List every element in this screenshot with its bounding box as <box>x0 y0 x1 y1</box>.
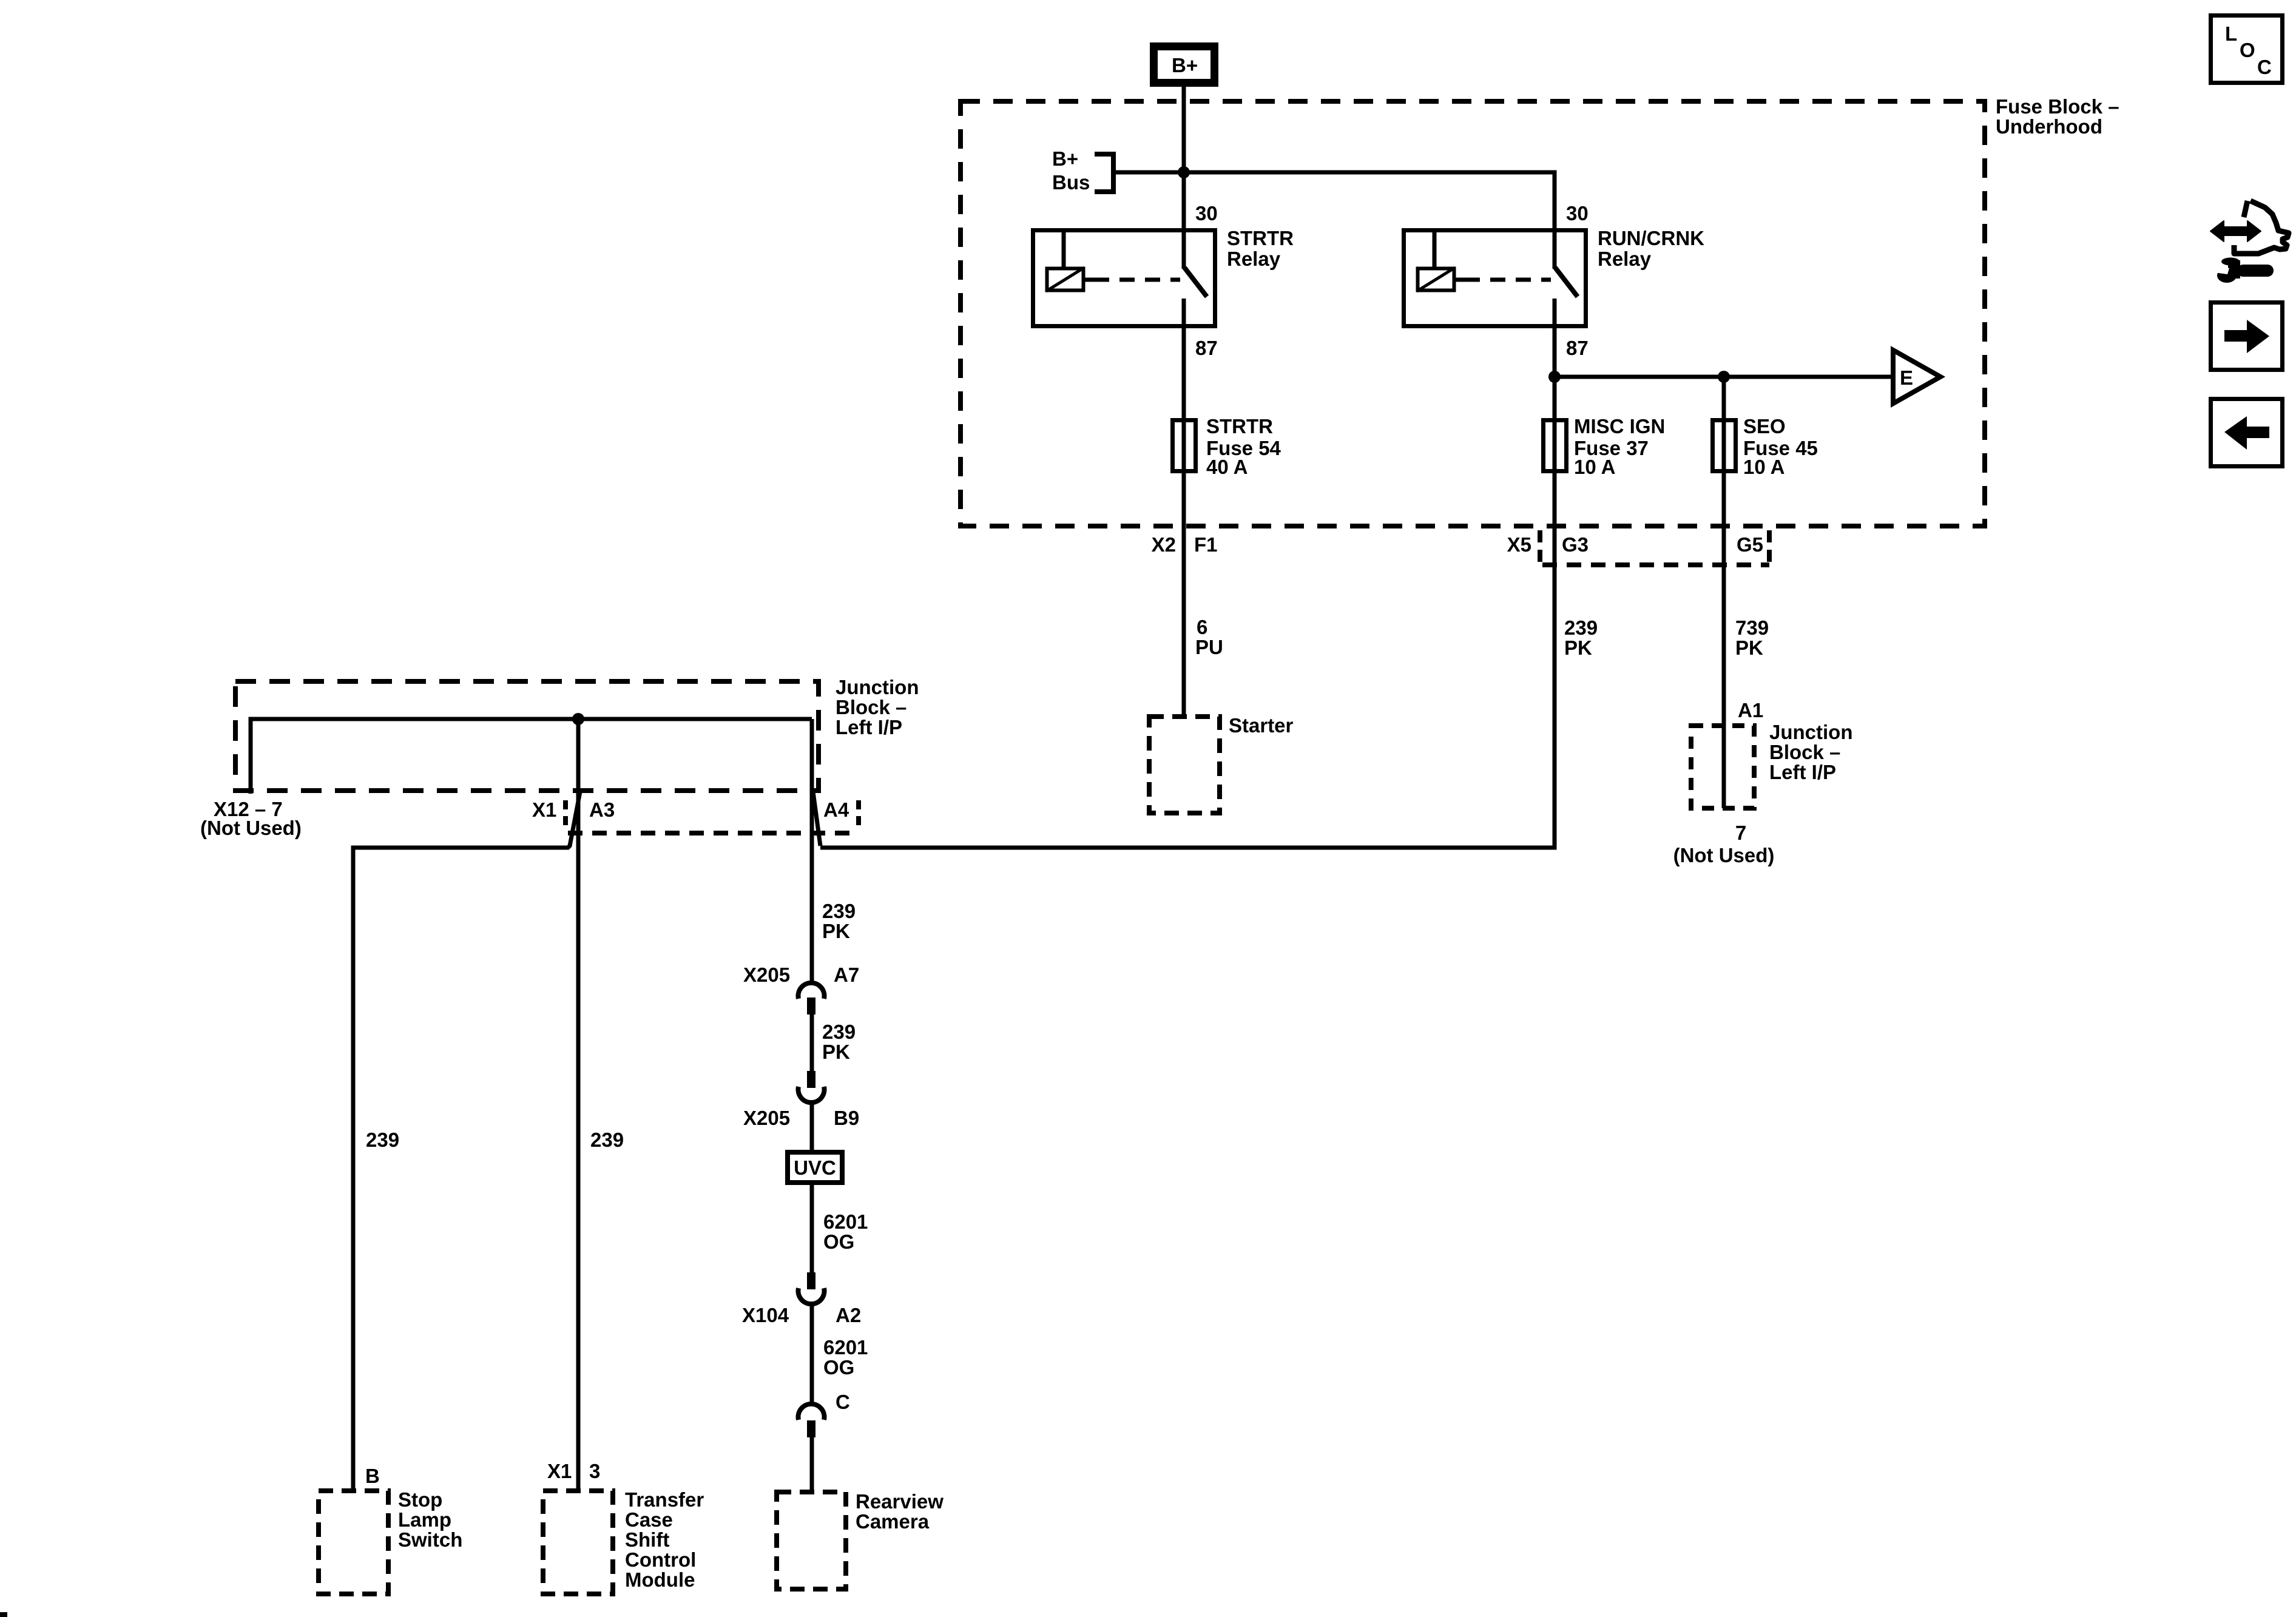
svg-text:C: C <box>836 1391 850 1413</box>
svg-text:MISC IGN: MISC IGN <box>1574 415 1665 437</box>
svg-text:239: 239 <box>1564 616 1598 639</box>
relay STRTR pin 87 wire down to fuse <box>1182 299 1186 717</box>
connector C male pin <box>807 1420 815 1437</box>
svg-text:40 A: 40 A <box>1206 456 1248 478</box>
svg-text:30: 30 <box>1195 202 1218 224</box>
connector labels G5 739 PK A1 <box>1735 533 1769 721</box>
svg-text:Transfer: Transfer <box>625 1488 704 1511</box>
connector X205 B9 labels <box>743 1107 859 1129</box>
svg-text:Starter: Starter <box>1229 714 1294 737</box>
svg-text:Junction: Junction <box>1769 721 1853 743</box>
labels X1 3 transfer case pins <box>547 1460 600 1482</box>
label rearview camera <box>856 1490 944 1533</box>
svg-text:G5: G5 <box>1737 533 1763 556</box>
svg-text:UVC: UVC <box>794 1156 836 1179</box>
service icon wrench <box>2214 258 2267 283</box>
svg-text:X205: X205 <box>743 1107 790 1129</box>
relay RUN/CRNK actuation dashed line <box>1465 278 1551 282</box>
svg-text:Block –: Block – <box>1769 741 1840 763</box>
svg-text:A3: A3 <box>589 798 615 821</box>
wire UVC down to X104 <box>810 1185 814 1272</box>
label fuse block underhood <box>1996 95 2119 138</box>
svg-text:X205: X205 <box>743 964 790 986</box>
wire B+ bus horizontal to relay 2 pin 30 <box>1116 172 1555 269</box>
connector X104 A2 female arc <box>799 1288 825 1304</box>
wire SEO fuse down to junction block A1 <box>1722 377 1726 808</box>
svg-text:X1: X1 <box>532 798 556 821</box>
inline splice UVC box <box>788 1152 842 1183</box>
svg-text:Camera: Camera <box>856 1510 930 1533</box>
svg-text:STRTR: STRTR <box>1206 415 1273 437</box>
connector X205 B9 female arc <box>799 1087 825 1102</box>
junction block left IP dashed border <box>235 681 819 791</box>
relay RUN/CRNK labels <box>1566 202 1704 359</box>
relay STRTR box <box>1033 231 1215 326</box>
relay RUN/CRNK box <box>1404 231 1586 326</box>
connector X205 A7 female arc <box>799 983 825 999</box>
svg-text:F1: F1 <box>1194 533 1218 556</box>
svg-text:Shift: Shift <box>625 1528 669 1551</box>
svg-text:10 A: 10 A <box>1743 456 1784 478</box>
svg-text:239: 239 <box>590 1129 624 1151</box>
wire B9 to UVC <box>810 1102 814 1150</box>
label junction block right <box>1673 721 1853 866</box>
connector strip below junction block <box>566 800 859 833</box>
svg-text:6: 6 <box>1197 616 1207 638</box>
service icon hand outline <box>2234 201 2289 254</box>
junction dot at MISC IGN branch <box>1548 371 1561 383</box>
svg-text:Switch: Switch <box>398 1528 462 1551</box>
connector X205 A7 male pin <box>807 998 815 1014</box>
svg-text:Stop: Stop <box>398 1488 442 1511</box>
svg-text:(Not Used): (Not Used) <box>200 817 302 839</box>
svg-text:A1: A1 <box>1738 699 1763 721</box>
wire A3 down to transfer case module <box>576 719 581 1491</box>
svg-text:L: L <box>2225 22 2237 45</box>
svg-text:Left I/P: Left I/P <box>836 716 902 738</box>
LOC legend box <box>2211 16 2283 83</box>
svg-text:87: 87 <box>1566 337 1589 359</box>
label X12-7 not used <box>200 798 302 839</box>
relay STRTR coil feed wire <box>1062 230 1066 268</box>
svg-text:STRTR: STRTR <box>1227 227 1294 249</box>
label transfer case shift control module <box>625 1488 704 1591</box>
svg-text:A4: A4 <box>823 798 849 821</box>
label junction block left <box>836 676 919 738</box>
relay STRTR coil diagonal <box>1046 268 1084 291</box>
off-page arrow E <box>1893 350 1940 403</box>
svg-text:B+: B+ <box>1172 54 1198 76</box>
relay STRTR actuation dashed line <box>1094 278 1180 282</box>
connector X205 B9 male pin <box>807 1071 815 1088</box>
svg-text:Junction: Junction <box>836 676 919 698</box>
relay STRTR labels <box>1195 202 1294 359</box>
svg-text:Fuse Block –: Fuse Block – <box>1996 95 2119 118</box>
fuse SEO 45 <box>1713 420 1736 471</box>
svg-text:PK: PK <box>1564 636 1592 659</box>
svg-text:X5: X5 <box>1507 533 1531 556</box>
svg-text:Block –: Block – <box>836 696 907 718</box>
wire relay 2 87 horizontal to E arrow <box>1555 375 1893 379</box>
svg-text:Module: Module <box>625 1568 695 1591</box>
relay RUN/CRNK coil feed wire <box>1433 230 1437 268</box>
svg-text:O: O <box>2240 39 2255 61</box>
svg-text:A2: A2 <box>836 1304 861 1326</box>
svg-text:OG: OG <box>823 1230 854 1253</box>
fuse STRTR 54 <box>1173 420 1196 471</box>
connector X104 A2 labels <box>742 1304 861 1326</box>
junction dot on bus <box>572 713 584 725</box>
junction dot at SEO branch <box>1718 371 1730 383</box>
svg-text:X2: X2 <box>1152 533 1176 556</box>
svg-text:OG: OG <box>823 1356 854 1379</box>
svg-text:RUN/CRNK: RUN/CRNK <box>1598 227 1704 249</box>
svg-text:87: 87 <box>1195 337 1218 359</box>
junction dot B+ bus <box>1178 166 1190 178</box>
connector X104 A2 male pin <box>807 1272 815 1289</box>
relay RUN/CRNK coil <box>1418 269 1454 291</box>
label 6201 OG lower <box>823 1336 868 1379</box>
wire B+ box down to relay 1 pin 30 <box>1182 87 1186 269</box>
starter dashed box <box>1149 717 1220 813</box>
relay STRTR switch blade <box>1184 268 1207 297</box>
svg-text:Bus: Bus <box>1052 171 1090 194</box>
svg-text:Left I/P: Left I/P <box>1769 761 1836 783</box>
svg-text:PK: PK <box>822 920 850 942</box>
service icon double arrow <box>2210 221 2261 241</box>
svg-text:C: C <box>2257 56 2272 78</box>
svg-text:Case: Case <box>625 1508 673 1531</box>
label 6201 OG upper <box>823 1210 868 1253</box>
svg-text:239: 239 <box>822 900 856 922</box>
svg-text:239: 239 <box>822 1021 856 1043</box>
connector labels X5 G3 <box>1507 533 1598 659</box>
relay STRTR coil stub <box>1084 278 1094 282</box>
svg-text:6201: 6201 <box>823 1210 868 1233</box>
svg-text:PK: PK <box>1735 636 1763 659</box>
wire A2 down to C <box>810 1304 814 1405</box>
svg-text:PK: PK <box>822 1041 850 1063</box>
svg-text:7: 7 <box>1735 822 1746 844</box>
fuse block underhood dashed border <box>961 101 1985 526</box>
relay RUN/CRNK coil diagonal <box>1417 268 1455 291</box>
svg-text:A7: A7 <box>834 964 859 986</box>
relay STRTR coil <box>1047 269 1084 291</box>
svg-text:Underhood: Underhood <box>1996 115 2102 138</box>
connector C female arc <box>799 1404 825 1420</box>
wire A3 slant branch to stop lamp switch <box>353 792 580 1491</box>
svg-text:PU: PU <box>1195 636 1223 658</box>
label stop lamp switch <box>398 1488 462 1551</box>
svg-text:G3: G3 <box>1562 533 1589 556</box>
svg-text:739: 739 <box>1735 616 1769 639</box>
label 239 PK camera chain upper <box>822 900 856 942</box>
svg-text:X104: X104 <box>742 1304 789 1326</box>
stop lamp switch dashed box <box>319 1491 388 1594</box>
wire C down to rearview camera <box>810 1437 814 1492</box>
svg-text:10 A: 10 A <box>1574 456 1615 478</box>
svg-text:E: E <box>1900 366 1913 389</box>
svg-text:X1: X1 <box>547 1460 572 1482</box>
connector X205 A7 labels <box>743 964 859 986</box>
svg-text:Control: Control <box>625 1548 696 1571</box>
svg-text:(Not Used): (Not Used) <box>1673 844 1775 866</box>
svg-text:6201: 6201 <box>823 1336 868 1359</box>
svg-text:Lamp: Lamp <box>398 1508 451 1531</box>
connector labels X1 A3 A4 <box>532 798 849 821</box>
svg-text:239: 239 <box>366 1129 399 1151</box>
svg-text:B9: B9 <box>834 1107 859 1129</box>
connector labels X2 F1 <box>1152 533 1223 658</box>
fuse MISC IGN 37 <box>1544 420 1567 471</box>
label 239 PK camera chain mid <box>822 1021 856 1063</box>
relay RUN/CRNK pin 87 wire down through MISC IGN fuse to A4 <box>820 299 1555 848</box>
transfer case shift control module dashed box <box>543 1491 613 1594</box>
legend arrow right box <box>2211 303 2283 370</box>
svg-text:3: 3 <box>589 1460 600 1482</box>
svg-text:Rearview: Rearview <box>856 1490 944 1513</box>
label B+ bus <box>1052 147 1090 194</box>
B+ bus bracket <box>1095 154 1113 192</box>
fuse block bottom connector dashed strip G3 G5 <box>1540 530 1769 567</box>
svg-text:B+: B+ <box>1052 147 1078 170</box>
page corner artifact dot <box>0 1612 7 1617</box>
legend arrow left box <box>2211 399 2283 467</box>
svg-text:SEO: SEO <box>1743 415 1786 437</box>
rearview camera dashed box <box>777 1492 846 1589</box>
svg-text:B: B <box>365 1465 380 1487</box>
svg-text:Relay: Relay <box>1598 248 1652 270</box>
junction block internal bus wire <box>251 719 812 794</box>
wire A4 down to rearview camera chain <box>810 719 814 984</box>
relay RUN/CRNK coil stub <box>1454 278 1465 282</box>
svg-text:Relay: Relay <box>1227 248 1281 270</box>
junction block left IP right dashed box <box>1691 726 1754 808</box>
B+ power feed box <box>1154 47 1215 83</box>
svg-text:30: 30 <box>1566 202 1589 224</box>
wire between X205 connectors <box>810 1014 814 1071</box>
relay RUN/CRNK switch blade <box>1555 268 1578 297</box>
wire A4 slant into horizontal from MISC IGN <box>813 792 820 846</box>
